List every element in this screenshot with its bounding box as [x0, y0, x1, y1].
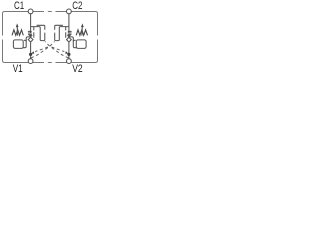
port C1	[28, 9, 33, 14]
left valve: seat diamond	[28, 37, 33, 42]
wire C1 down	[30, 13, 32, 34]
left valve: seat ticks	[28, 31, 32, 34]
boundary box right-bottom edge	[56, 40, 98, 63]
right chamber connector to seat	[70, 37, 77, 48]
svg-text:C2: C2	[72, 0, 82, 12]
right pilot chamber lower box	[55, 27, 69, 41]
left spring	[12, 30, 23, 36]
left chamber stub	[24, 40, 26, 41]
right spring	[76, 30, 87, 36]
right valve: poppet triangle	[67, 35, 71, 38]
svg-text:C1: C1	[14, 0, 24, 12]
pilot branch to right arrow	[52, 47, 65, 52]
svg-text:V1: V1	[13, 63, 23, 73]
port V1	[28, 59, 33, 64]
left pilot chamber lower box	[31, 27, 45, 41]
junction dot V2	[67, 53, 70, 56]
right adjust arrow	[81, 26, 83, 35]
left pilot box side segments	[33, 27, 35, 38]
right pilot box side segments	[65, 27, 67, 38]
boundary box left-top edge	[3, 12, 45, 36]
right spring chamber box	[76, 40, 86, 49]
boundary box right-top edge	[56, 12, 98, 36]
wire V1 up	[30, 42, 32, 60]
wire V2 up	[68, 42, 70, 60]
left valve: poppet triangle	[29, 35, 33, 38]
right valve: seat diamond	[67, 37, 72, 42]
wire C2 down	[68, 13, 70, 34]
pilot line V1 to right chamber	[31, 42, 55, 58]
junction dot V1	[29, 53, 32, 56]
port V2	[67, 59, 72, 64]
boundary top center dash	[48, 11, 52, 13]
right pilot chamber upper box	[55, 25, 63, 29]
pilot arrow onto left line	[31, 51, 34, 54]
left pilot chamber upper box	[37, 25, 45, 29]
pilot line V2 to left chamber	[45, 42, 69, 58]
right chamber stub	[73, 40, 75, 41]
port C2	[67, 9, 72, 14]
boundary bottom center dash	[48, 62, 52, 64]
left chamber connector to seat	[23, 37, 30, 48]
left adjust arrow	[16, 26, 18, 35]
pilot branch to left arrow	[35, 47, 48, 52]
boundary box left-bottom edge	[3, 40, 45, 63]
pilot arrow onto right line	[65, 51, 68, 54]
right valve: seat ticks	[68, 31, 72, 34]
svg-text:V2: V2	[72, 63, 83, 73]
left spring chamber box	[13, 40, 23, 49]
